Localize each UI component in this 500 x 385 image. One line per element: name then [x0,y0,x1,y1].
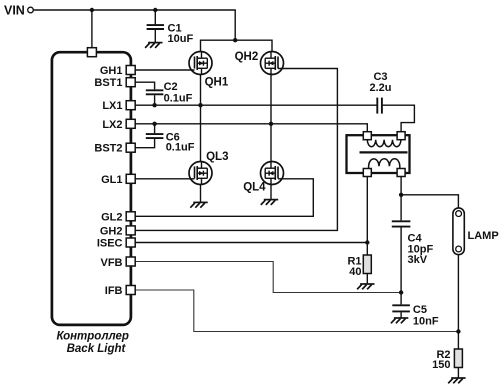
wire LX1 rail [135,104,377,106]
capacitor C3 [377,98,414,132]
capacitor C2 [146,90,164,105]
wire lamp bottom [457,255,459,349]
transistor QH1 [189,52,212,75]
ground C5 [391,318,408,323]
svg-text:C3: C3 [373,71,387,83]
svg-text:0.1uF: 0.1uF [164,92,193,104]
svg-text:IFB: IFB [105,285,123,297]
svg-text:GH2: GH2 [100,225,123,237]
transformer pad S2 [397,169,405,177]
wire VIN top rail [33,10,235,40]
capacitor C4 [392,221,411,292]
pin GL1 square [126,174,135,183]
controller top pad [87,48,96,57]
lamp LAMP [453,208,464,255]
node LX2/QH2 junction [269,122,273,126]
transformer secondary winding [369,159,400,169]
wire QL3 drain [200,105,202,161]
svg-text:VIN: VIN [4,3,25,17]
wire GL1 to QL3 gate [135,178,194,180]
svg-text:BST1: BST1 [94,77,122,89]
svg-text:GL2: GL2 [101,211,122,223]
pin LX2 square [126,119,135,128]
wire IFB rail [135,290,458,332]
pin ISEC square [126,238,135,247]
node C1 junction [153,8,157,12]
resistor R1 [363,255,371,274]
svg-text:QL4: QL4 [243,182,266,194]
capacitor C5 [392,293,410,318]
wire VIN drop to controller pad [91,10,93,48]
wire ISEC rail [135,242,367,244]
node VFB/C5 junction [399,290,403,294]
svg-text:10uF: 10uF [168,33,194,45]
wire R1 to ground [366,274,368,284]
ground QL3 [190,202,207,207]
wire VFB rail [135,262,401,293]
pin BST1 square [126,78,135,87]
transistor QH2 (mirrored) [261,52,284,75]
pin BST2 square [126,143,135,152]
svg-text:QL3: QL3 [206,151,228,163]
svg-text:BST2: BST2 [94,143,122,155]
pin GH1 square [126,66,135,75]
ground C1 [145,43,162,48]
svg-text:LAMP: LAMP [468,230,499,242]
wire secondary right to C4 [400,177,402,221]
wire lamp feed [401,195,458,208]
node VIN/pad junction [90,8,94,12]
svg-text:0.1uF: 0.1uF [166,141,195,153]
svg-text:Back Light: Back Light [67,343,127,355]
transformer pad P1 [363,132,371,140]
transistor QL3 [189,162,212,185]
wire QH drain rail [201,40,273,51]
wire GL2 to QL4 gate [135,179,313,217]
wire secondary left to R1 [366,177,368,256]
wire LX2 rail [135,124,367,132]
wire QL3 source [200,185,202,203]
node QH drain junction [233,38,237,42]
svg-text:QH2: QH2 [235,51,259,63]
svg-text:40: 40 [349,266,361,278]
svg-text:2.2u: 2.2u [369,82,391,94]
ground R2 [448,378,465,383]
pin LX1 square [126,101,135,110]
wire QH2 source to LX2 [270,75,272,124]
controller U1 box [52,52,131,325]
svg-text:Контроллер: Контроллер [56,331,128,343]
capacitor C1 [147,10,164,42]
svg-text:LX2: LX2 [102,119,122,131]
resistor R2 [454,349,462,368]
pin VFB square [126,257,135,266]
transformer pad S1 [363,169,371,177]
svg-text:GL1: GL1 [101,174,122,186]
wire BST1 to C2 [135,82,154,89]
wire QL4 source [270,185,272,200]
node C6/LX2 junction [152,122,156,126]
wire QL4 drain [270,124,272,162]
ground QL4 [261,200,278,205]
wire GH2 to QH2 gate [135,69,337,231]
wire R2 to ground [457,368,459,378]
wire QH1 source to LX1 [200,75,202,106]
svg-text:C5: C5 [413,304,427,316]
transformer pad P2 [397,132,405,140]
svg-text:10nF: 10nF [413,316,439,328]
ground R1 [357,284,374,289]
pin IFB square [126,286,135,295]
node VIN terminal [28,7,34,13]
svg-text:150: 150 [432,359,450,371]
wire GH1 to QH1 gate [135,69,194,71]
transistor QL4 (mirrored) [261,162,284,185]
transformer primary winding [367,140,401,147]
pin GH2 square [126,226,135,235]
svg-text:QH1: QH1 [205,77,229,89]
node LX1/QH1 junction [198,103,202,107]
svg-text:GH1: GH1 [100,65,123,77]
transformer T1 box [347,135,410,173]
transformer core [360,151,408,153]
capacitor C6 [135,124,163,148]
svg-text:3kV: 3kV [408,254,428,266]
svg-text:C2: C2 [164,81,178,93]
node ISEC junction [365,240,369,244]
svg-text:ISEC: ISEC [97,238,123,250]
node C2/LX1 junction [152,103,156,107]
svg-text:VFB: VFB [101,257,123,269]
node IFB/R2 junction [456,329,460,333]
pin GL2 square [126,212,135,221]
svg-text:LX1: LX1 [102,100,122,112]
node lamp feed junction [399,193,403,197]
